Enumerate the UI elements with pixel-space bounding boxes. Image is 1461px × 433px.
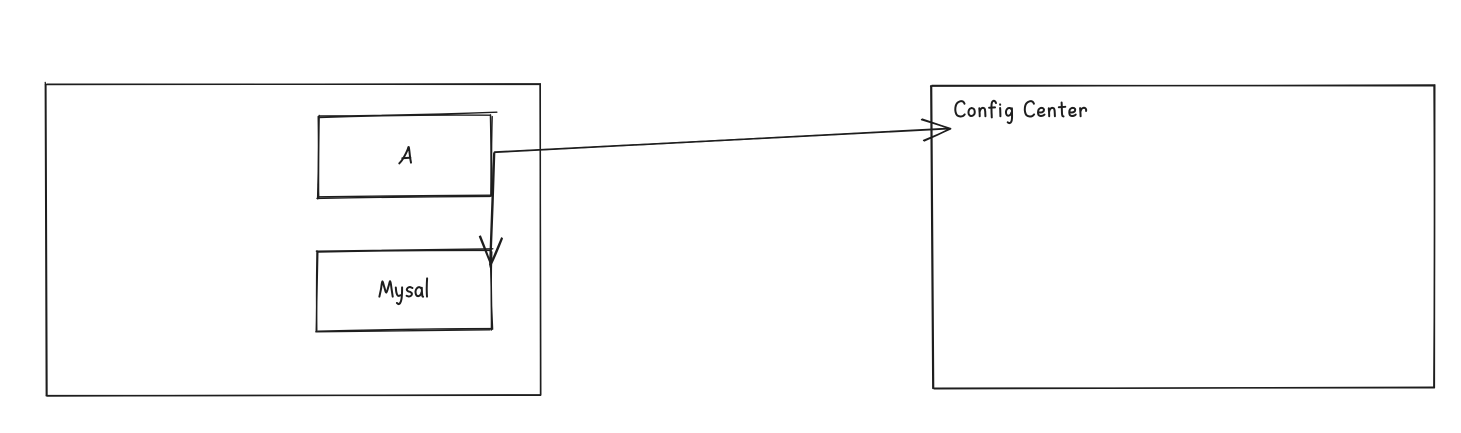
- label 'A' in box A: [399, 147, 411, 163]
- box A: [317, 112, 497, 199]
- outer system box (left container): [45, 82, 541, 396]
- label 'Mysal' in box: [379, 278, 427, 304]
- arrow A to Mysal: [480, 153, 503, 267]
- arrow A to Config Center: [494, 119, 950, 152]
- label 'Config Center': [955, 101, 1086, 123]
- Config Center box (right container): [931, 85, 1435, 389]
- box Mysal: [316, 249, 493, 332]
